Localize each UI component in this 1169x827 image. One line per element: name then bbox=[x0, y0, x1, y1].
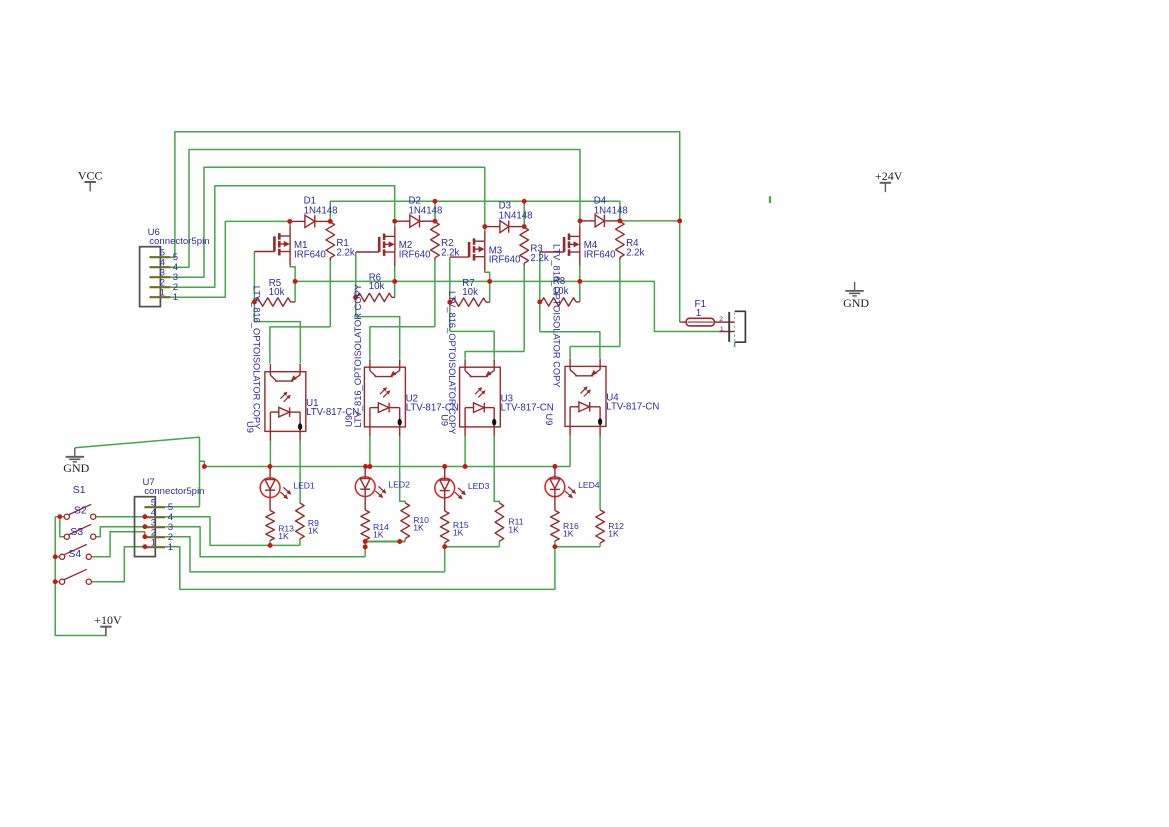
svg-text:2.2k: 2.2k bbox=[530, 253, 548, 264]
svg-text:1N4148: 1N4148 bbox=[304, 205, 338, 216]
svg-text:+24V: +24V bbox=[875, 169, 903, 183]
svg-text:1N4148: 1N4148 bbox=[409, 205, 443, 216]
svg-text:1K: 1K bbox=[453, 528, 464, 538]
svg-text:2.2k: 2.2k bbox=[626, 247, 644, 258]
svg-text:IRF640: IRF640 bbox=[294, 249, 326, 260]
svg-text:1K: 1K bbox=[508, 524, 519, 534]
svg-text:U9: U9 bbox=[440, 414, 450, 426]
svg-text:LTV-817-CN: LTV-817-CN bbox=[606, 402, 659, 413]
svg-text:connector5pin: connector5pin bbox=[149, 236, 209, 247]
svg-text:10k: 10k bbox=[462, 287, 478, 298]
svg-text:VCC: VCC bbox=[78, 168, 103, 182]
svg-text:IRF640: IRF640 bbox=[489, 255, 521, 266]
svg-text:10k: 10k bbox=[369, 281, 385, 292]
svg-text:S1: S1 bbox=[73, 484, 86, 496]
svg-text:1N4148: 1N4148 bbox=[594, 205, 628, 216]
svg-text:S3: S3 bbox=[70, 526, 83, 538]
svg-text:+10V: +10V bbox=[94, 613, 122, 627]
svg-text:2.2k: 2.2k bbox=[441, 247, 459, 258]
svg-text:LED2: LED2 bbox=[388, 480, 410, 490]
svg-text:1: 1 bbox=[173, 292, 178, 303]
svg-text:LED3: LED3 bbox=[468, 481, 490, 491]
svg-text:1: 1 bbox=[168, 542, 173, 553]
svg-text:S4: S4 bbox=[68, 548, 81, 560]
svg-text:connector5pin: connector5pin bbox=[144, 486, 204, 497]
svg-text:1K: 1K bbox=[278, 531, 289, 541]
svg-text:2.2k: 2.2k bbox=[336, 248, 354, 259]
svg-text:LTV_816_OPTOISOLATOR COPY: LTV_816_OPTOISOLATOR COPY bbox=[447, 291, 457, 434]
svg-text:U9: U9 bbox=[344, 415, 354, 427]
svg-text:LTV_816_OPTOISOLATOR COPY: LTV_816_OPTOISOLATOR COPY bbox=[252, 286, 262, 429]
svg-text:1: 1 bbox=[696, 308, 702, 319]
svg-text:U9: U9 bbox=[544, 414, 554, 426]
svg-text:LTV_816_OPTOISOLATOR COPY: LTV_816_OPTOISOLATOR COPY bbox=[353, 284, 363, 427]
svg-text:1K: 1K bbox=[373, 529, 384, 539]
svg-text:LED1: LED1 bbox=[293, 480, 315, 490]
svg-text:GND: GND bbox=[63, 461, 89, 475]
svg-text:1K: 1K bbox=[563, 529, 574, 539]
svg-text:LTV_816_OPTOISOLATOR COPY: LTV_816_OPTOISOLATOR COPY bbox=[552, 244, 562, 387]
svg-text:GND: GND bbox=[843, 296, 869, 310]
svg-text:IRF640: IRF640 bbox=[584, 249, 616, 260]
svg-text:LED4: LED4 bbox=[578, 480, 600, 490]
svg-text:1N4148: 1N4148 bbox=[499, 211, 533, 222]
svg-text:1: 1 bbox=[160, 288, 165, 299]
svg-text:S2: S2 bbox=[74, 505, 87, 517]
svg-text:10k: 10k bbox=[269, 287, 285, 298]
svg-text:U9: U9 bbox=[245, 421, 255, 433]
svg-text:1: 1 bbox=[151, 538, 156, 549]
svg-text:1K: 1K bbox=[413, 522, 424, 532]
svg-text:1: 1 bbox=[720, 326, 724, 333]
svg-text:IRF640: IRF640 bbox=[399, 249, 431, 260]
svg-text:1K: 1K bbox=[308, 525, 319, 535]
svg-text:LTV-817-CN: LTV-817-CN bbox=[501, 403, 554, 414]
svg-text:2: 2 bbox=[719, 316, 723, 323]
svg-text:1K: 1K bbox=[608, 529, 619, 539]
